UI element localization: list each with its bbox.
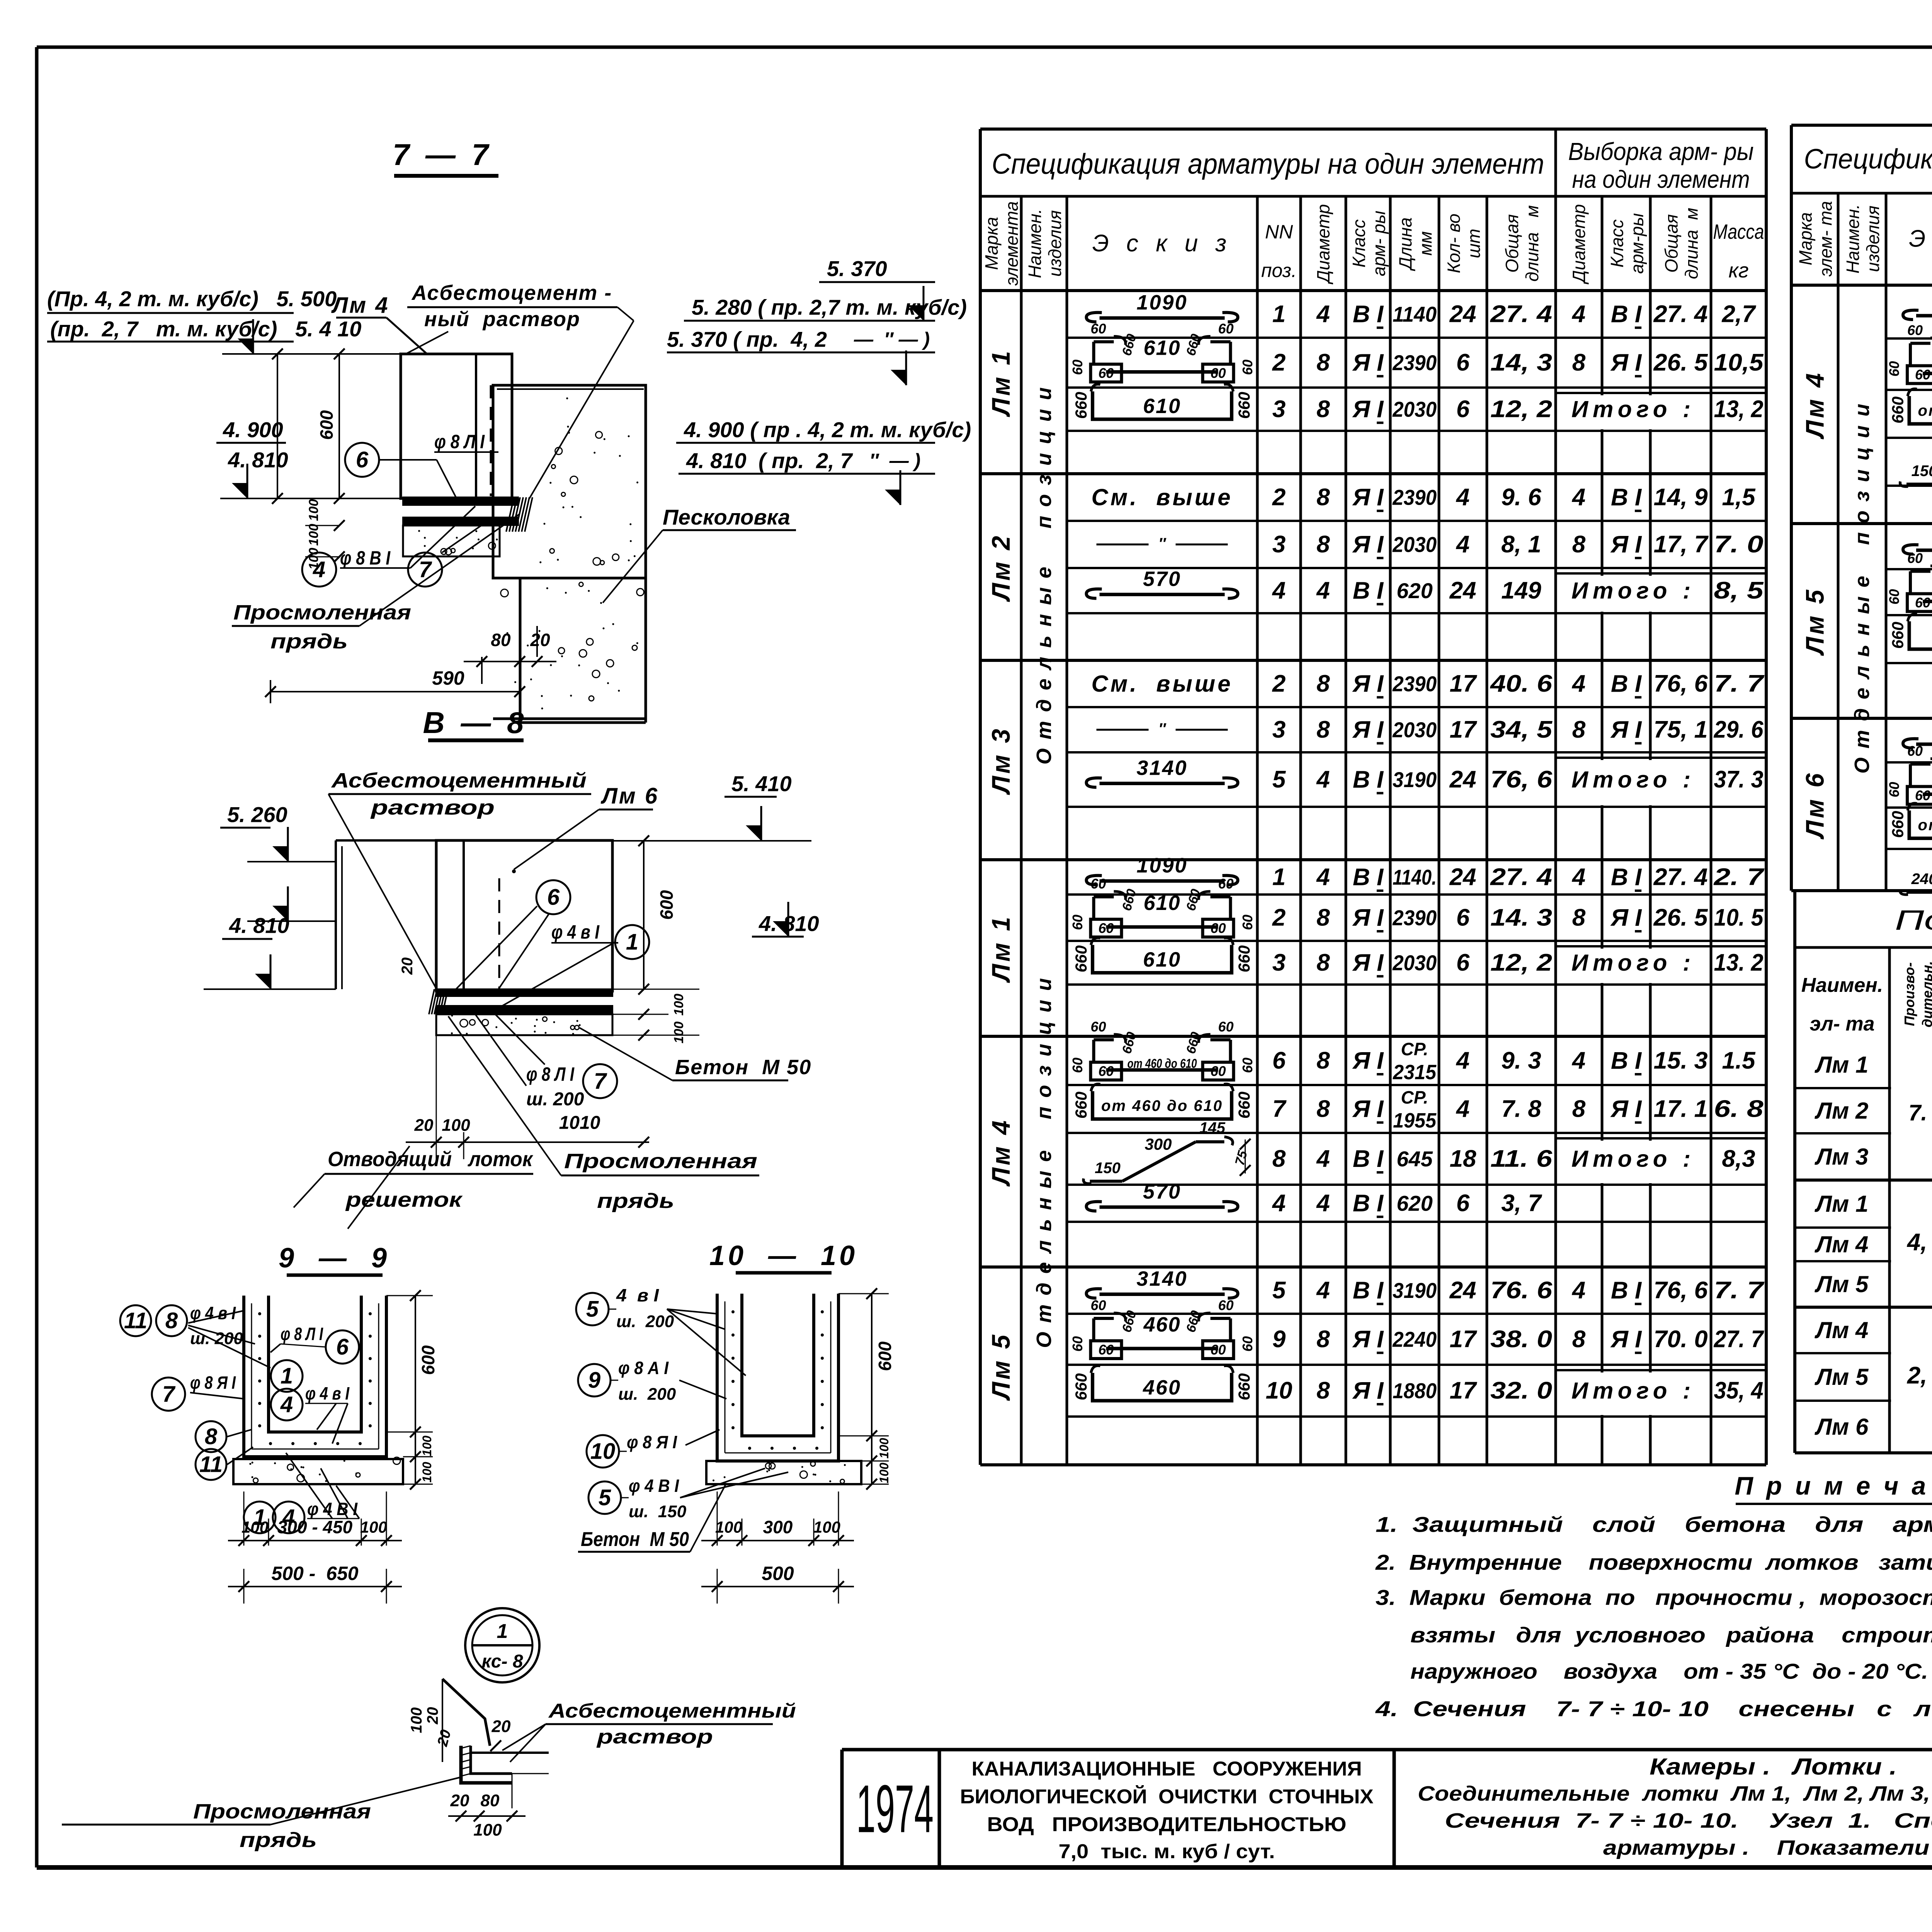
svg-text:2,7: 2,7 [1721, 301, 1756, 328]
svg-text:Э с к и з: Э с к и з [1092, 230, 1232, 257]
svg-text:1880: 1880 [1393, 1379, 1437, 1403]
svg-text:Итого :: Итого : [1571, 767, 1695, 793]
svg-text:8: 8 [1316, 670, 1330, 697]
svg-text:24: 24 [1449, 1277, 1476, 1304]
svg-text:5. 370: 5. 370 [827, 257, 887, 281]
svg-text:8: 8 [1316, 1378, 1330, 1404]
svg-text:1090: 1090 [1136, 854, 1187, 877]
svg-text:Произво-: Произво- [1901, 962, 1917, 1026]
svg-text:8: 8 [1572, 349, 1586, 376]
svg-text:12, 2: 12, 2 [1490, 949, 1552, 976]
svg-text:100: 100 [306, 524, 321, 546]
svg-text:3: 3 [1272, 716, 1286, 743]
svg-text:4: 4 [1272, 577, 1286, 604]
svg-text:6: 6 [336, 1335, 349, 1360]
svg-text:35, 4: 35, 4 [1714, 1378, 1764, 1404]
svg-text:60: 60 [1907, 322, 1923, 338]
svg-text:80: 80 [481, 1791, 500, 1810]
svg-text:В I: В I [1353, 766, 1384, 793]
svg-text:8: 8 [1272, 1146, 1286, 1172]
svg-text:арм-ры: арм-ры [1627, 213, 1647, 274]
svg-text:φ 8 В I: φ 8 В I [340, 547, 391, 569]
svg-text:Наимен.: Наимен. [1025, 209, 1045, 278]
svg-text:мм: мм [1415, 231, 1435, 255]
svg-text:Лм 3: Лм 3 [1815, 1144, 1869, 1170]
svg-text:1: 1 [497, 1620, 508, 1643]
svg-text:Я I: Я I [1352, 949, 1384, 976]
svg-text:8: 8 [1316, 1326, 1330, 1353]
svg-text:60: 60 [1098, 1063, 1114, 1079]
svg-text:610: 610 [1143, 337, 1180, 360]
svg-text:6: 6 [1456, 1190, 1470, 1217]
svg-text:Я I: Я I [1610, 531, 1642, 558]
svg-text:элемента: элемента [1002, 201, 1022, 286]
svg-text:150: 150 [1912, 463, 1932, 480]
svg-text:10: 10 [590, 1439, 616, 1464]
svg-text:2390: 2390 [1392, 485, 1437, 510]
svg-text:прядь: прядь [597, 1189, 674, 1213]
svg-text:Диаметр: Диаметр [1313, 204, 1333, 285]
svg-text:7: 7 [594, 1069, 607, 1094]
svg-text:2030: 2030 [1392, 951, 1437, 975]
svg-text:7,0 тыс. м. куб / сут.: 7,0 тыс. м. куб / сут. [1059, 1840, 1275, 1863]
svg-text:100: 100 [420, 1462, 434, 1483]
svg-text:4: 4 [1571, 301, 1585, 328]
svg-text:Песколовка: Песколовка [663, 505, 790, 529]
svg-text:6: 6 [547, 885, 560, 910]
svg-text:100: 100 [306, 499, 321, 521]
svg-text:В I: В I [1611, 1277, 1642, 1304]
svg-text:60: 60 [1218, 1298, 1233, 1313]
svg-text:Асбестоцемент -: Асбестоцемент - [411, 281, 612, 304]
svg-text:1.5: 1.5 [1722, 1048, 1756, 1074]
svg-text:100: 100 [442, 1116, 470, 1135]
svg-text:4: 4 [1571, 1048, 1585, 1074]
svg-text:1140.: 1140. [1393, 865, 1437, 889]
svg-text:4: 4 [1456, 531, 1469, 558]
svg-text:Масса: Масса [1713, 220, 1764, 243]
svg-text:В I: В I [1611, 484, 1642, 511]
svg-text:3: 3 [1272, 531, 1286, 558]
svg-text:Наимен.: Наимен. [1801, 974, 1883, 997]
svg-text:24: 24 [1449, 301, 1476, 328]
svg-text:от 460 до 610: от 460 до 610 [1101, 1097, 1223, 1114]
svg-text:2: 2 [1272, 484, 1286, 511]
svg-text:3140: 3140 [1136, 757, 1187, 780]
svg-text:620: 620 [1396, 578, 1432, 603]
svg-text:См. выше: См. выше [1092, 671, 1233, 697]
svg-text:Лм 6: Лм 6 [1815, 1414, 1869, 1440]
svg-text:наружного воздуха от - 3: наружного воздуха от - 35 °С до - 20 °С. [1410, 1659, 1928, 1684]
svg-text:3: 3 [1272, 396, 1286, 423]
svg-text:Я I: Я I [1352, 1048, 1384, 1074]
svg-text:Общая: Общая [1502, 214, 1522, 272]
svg-text:В I: В I [1353, 1146, 1384, 1172]
svg-text:Я I: Я I [1352, 349, 1384, 376]
svg-text:8: 8 [1572, 1326, 1586, 1353]
svg-text:60: 60 [1210, 920, 1226, 936]
svg-text:2, 7: 2, 7 [1907, 1362, 1932, 1389]
svg-text:80: 80 [491, 630, 511, 650]
svg-text:60: 60 [1240, 1336, 1255, 1352]
svg-text:Я I: Я I [1352, 905, 1384, 931]
svg-text:20: 20 [450, 1791, 469, 1810]
svg-text:8: 8 [1572, 716, 1586, 743]
svg-text:660: 660 [1235, 1373, 1253, 1400]
svg-text:4: 4 [313, 557, 325, 582]
svg-text:4. 810 ( пр. 2, 7: 4. 810 ( пр. 2, 7 [686, 449, 853, 473]
svg-text:1: 1 [253, 1505, 266, 1530]
svg-text:15. 3: 15. 3 [1654, 1048, 1708, 1074]
svg-text:24: 24 [1449, 766, 1476, 793]
svg-text:645: 645 [1396, 1147, 1433, 1171]
svg-text:Общая: Общая [1662, 214, 1682, 272]
svg-text:φ 8 А I: φ 8 А I [618, 1358, 669, 1378]
svg-text:В I: В I [1353, 864, 1384, 891]
svg-text:Лм 4: Лм 4 [1815, 1317, 1869, 1343]
svg-text:660: 660 [1072, 392, 1090, 419]
svg-text:500: 500 [762, 1563, 794, 1584]
svg-text:7 — 7: 7 — 7 [393, 138, 492, 172]
svg-text:29. 6: 29. 6 [1714, 716, 1764, 743]
svg-text:76. 6: 76. 6 [1490, 1277, 1553, 1304]
svg-text:460: 460 [1143, 1376, 1181, 1399]
svg-text:φ 8 Л I: φ 8 Л I [434, 431, 485, 452]
svg-text:17: 17 [1450, 1378, 1477, 1404]
svg-text:7: 7 [1272, 1096, 1287, 1122]
svg-text:2: 2 [1272, 670, 1286, 697]
svg-text:660: 660 [1184, 888, 1203, 913]
svg-text:См. выше: См. выше [1092, 485, 1233, 510]
svg-text:570: 570 [1143, 1180, 1181, 1203]
svg-text:60: 60 [1098, 365, 1114, 381]
svg-text:2030: 2030 [1392, 532, 1437, 557]
svg-text:34, 5: 34, 5 [1490, 716, 1553, 743]
svg-text:Лм 1: Лм 1 [986, 349, 1015, 417]
svg-text:кс- 8: кс- 8 [481, 1651, 523, 1672]
svg-text:60: 60 [1070, 359, 1085, 375]
svg-text:φ 8 Я I: φ 8 Я I [190, 1372, 236, 1393]
svg-text:Бетон М 50: Бетон М 50 [581, 1528, 689, 1551]
svg-text:14, 3: 14, 3 [1490, 349, 1552, 376]
svg-text:7. 7: 7. 7 [1714, 670, 1765, 697]
svg-text:6: 6 [1456, 905, 1470, 931]
svg-text:100: 100 [877, 1463, 891, 1483]
svg-text:кг: кг [1728, 259, 1748, 282]
svg-text:1955: 1955 [1393, 1109, 1437, 1132]
svg-text:Лм 1: Лм 1 [1815, 1052, 1869, 1078]
svg-text:8: 8 [1316, 349, 1330, 376]
svg-text:Бетон М 50: Бетон М 50 [675, 1056, 811, 1079]
svg-text:Марка: Марка [981, 217, 1002, 270]
svg-text:60: 60 [1090, 876, 1106, 892]
svg-text:150: 150 [1095, 1160, 1121, 1177]
svg-text:660: 660 [1119, 888, 1139, 913]
svg-text:9: 9 [1272, 1326, 1286, 1353]
svg-text:В I: В I [1353, 577, 1384, 604]
svg-text:2390: 2390 [1392, 350, 1437, 375]
svg-text:Просмоленная: Просмоленная [233, 601, 411, 624]
svg-text:60: 60 [1090, 1298, 1106, 1313]
svg-text:Асбестоцементный: Асбестоцементный [331, 769, 587, 792]
svg-text:17: 17 [1450, 670, 1477, 697]
svg-text:5: 5 [1272, 766, 1286, 793]
svg-text:φ 4 В I: φ 4 В I [629, 1476, 679, 1496]
svg-text:Лм 3: Лм 3 [986, 726, 1015, 795]
svg-text:раствор: раствор [596, 1726, 713, 1748]
svg-text:11: 11 [124, 1308, 147, 1333]
svg-text:75, 1: 75, 1 [1654, 716, 1708, 743]
svg-text:ВОД ПРОИЗВОДИТЕЛЬНОСТЬЮ: ВОД ПРОИЗВОДИТЕЛЬНОСТЬЮ [987, 1813, 1347, 1836]
svg-text:660: 660 [1889, 622, 1907, 649]
svg-text:5. 370 ( пр. 4, 2: 5. 370 ( пр. 4, 2 [667, 327, 827, 352]
svg-text:10. 5: 10. 5 [1714, 905, 1764, 931]
svg-text:В I: В I [1611, 301, 1642, 328]
svg-text:длина м: длина м [1682, 208, 1702, 279]
svg-text:″ — ): ″ — ) [869, 450, 920, 471]
svg-text:60: 60 [1915, 367, 1930, 383]
svg-text:60: 60 [1886, 782, 1902, 797]
svg-text:60: 60 [1070, 1058, 1085, 1073]
svg-text:500 - 650: 500 - 650 [271, 1563, 358, 1584]
svg-text:18: 18 [1450, 1146, 1476, 1172]
svg-text:7. 0: 7. 0 [1908, 1100, 1932, 1126]
svg-text:Лм 6: Лм 6 [1801, 771, 1829, 839]
svg-text:Я I: Я I [1352, 531, 1384, 558]
svg-text:2: 2 [1272, 905, 1286, 931]
svg-text:(Пр. 4, 2 т. м. куб/с) 5. 50: (Пр. 4, 2 т. м. куб/с) 5. 500 [47, 287, 337, 311]
svg-text:610: 610 [1143, 891, 1180, 915]
svg-text:7: 7 [162, 1382, 176, 1407]
svg-text:изделия: изделия [1045, 210, 1065, 277]
svg-text:Лм 1: Лм 1 [1815, 1191, 1869, 1217]
svg-text:14, 9: 14, 9 [1654, 484, 1708, 511]
svg-text:φ 4 в I: φ 4 в I [551, 921, 600, 943]
svg-text:60: 60 [1070, 915, 1085, 930]
svg-text:13, 2: 13, 2 [1714, 396, 1764, 423]
svg-text:2315: 2315 [1393, 1061, 1437, 1084]
svg-text:от 460 до 610: от 460 до 610 [1128, 1056, 1197, 1071]
svg-text:4: 4 [1316, 577, 1330, 604]
svg-text:9. 6: 9. 6 [1501, 484, 1541, 511]
svg-text:4. 900: 4. 900 [223, 418, 283, 442]
svg-text:4: 4 [1571, 864, 1585, 891]
svg-text:3, 7: 3, 7 [1501, 1190, 1542, 1217]
svg-text:20: 20 [492, 1717, 511, 1736]
svg-text:6: 6 [356, 447, 369, 473]
svg-text:20: 20 [530, 630, 550, 650]
svg-text:60: 60 [1218, 1019, 1233, 1035]
svg-text:NN: NN [1265, 221, 1293, 243]
svg-text:60: 60 [1907, 550, 1923, 566]
svg-text:Асбестоцементный: Асбестоцементный [548, 1700, 796, 1722]
svg-text:9: 9 [588, 1368, 600, 1393]
svg-text:Э с к и з: Э с к и з [1909, 226, 1932, 252]
svg-text:4: 4 [1316, 1146, 1330, 1172]
svg-text:13. 2: 13. 2 [1714, 949, 1764, 976]
svg-text:1. Защитный слой бетона: 1. Защитный слой бетона для арматуры - 2… [1376, 1512, 1932, 1537]
svg-text:6: 6 [1456, 349, 1470, 376]
svg-text:арматуры . Показатели .: арматуры . Показатели . [1603, 1836, 1932, 1859]
svg-text:ш. 200: ш. 200 [526, 1089, 584, 1110]
svg-text:76, 6: 76, 6 [1654, 670, 1708, 697]
svg-text:Итого :: Итого : [1571, 1146, 1695, 1172]
svg-text:Я I: Я I [1610, 716, 1642, 743]
svg-text:100: 100 [408, 1708, 425, 1733]
svg-text:660: 660 [1119, 1031, 1139, 1056]
svg-text:прядь: прядь [270, 630, 348, 653]
svg-text:Я I: Я I [1352, 716, 1384, 743]
svg-text:арм- ры: арм- ры [1369, 211, 1389, 276]
svg-text:4: 4 [1316, 864, 1330, 891]
svg-text:8: 8 [1572, 1096, 1586, 1122]
svg-text:Лм 4: Лм 4 [331, 293, 389, 318]
svg-text:П р и м е ч а н и я :: П р и м е ч а н и я : [1735, 1471, 1932, 1500]
svg-text:60: 60 [1210, 365, 1226, 381]
svg-text:2240: 2240 [1392, 1327, 1437, 1352]
svg-text:Спецификация арматуры на один: Спецификация арматуры на один элемент [1804, 144, 1932, 175]
svg-text:4. 900 ( пр . 4, 2 т. м. куб/с: 4. 900 ( пр . 4, 2 т. м. куб/с) [684, 418, 971, 442]
svg-text:Диаметр: Диаметр [1569, 204, 1589, 285]
svg-text:В I: В I [1611, 864, 1642, 891]
svg-text:300: 300 [763, 1517, 793, 1537]
svg-text:ш. 200: ш. 200 [618, 1385, 676, 1404]
svg-text:3140: 3140 [1136, 1267, 1187, 1291]
svg-text:60: 60 [1915, 787, 1930, 803]
svg-text:СР.: СР. [1401, 1087, 1429, 1107]
svg-text:24: 24 [1449, 864, 1476, 891]
svg-text:φ 4 В I: φ 4 В I [307, 1499, 358, 1519]
svg-text:″: ″ [1158, 535, 1167, 552]
svg-text:О т д е л ь н ы е п о з и ц: О т д е л ь н ы е п о з и ц и и [1850, 402, 1874, 774]
svg-text:Лм 1: Лм 1 [986, 915, 1015, 983]
svg-text:20: 20 [414, 1116, 434, 1135]
svg-text:27. 4: 27. 4 [1490, 301, 1552, 328]
svg-text:6. 8: 6. 8 [1714, 1096, 1764, 1122]
svg-text:600: 600 [316, 410, 337, 440]
svg-text:Просмоленная: Просмоленная [193, 1800, 371, 1823]
svg-text:О т д е л ь н ы е п о з и ц: О т д е л ь н ы е п о з и ц и и [1032, 976, 1056, 1348]
svg-text:600: 600 [418, 1345, 438, 1375]
svg-text:100: 100 [672, 994, 686, 1016]
svg-text:11. 6: 11. 6 [1490, 1146, 1553, 1172]
svg-text:4. 810: 4. 810 [228, 448, 288, 472]
svg-text:17, 7: 17, 7 [1654, 531, 1709, 558]
svg-text:610: 610 [1143, 948, 1181, 971]
svg-text:— ″ — ): — ″ — ) [854, 328, 930, 350]
svg-text:1: 1 [1272, 301, 1286, 328]
svg-text:660: 660 [1889, 811, 1907, 838]
svg-text:Класс: Класс [1349, 219, 1369, 268]
svg-text:2030: 2030 [1392, 718, 1437, 742]
svg-text:620: 620 [1396, 1191, 1432, 1216]
svg-text:570: 570 [1143, 568, 1181, 591]
svg-text:600: 600 [875, 1341, 895, 1371]
svg-text:Я I: Я I [1610, 905, 1642, 931]
svg-text:Сечения 7- 7 ÷ 10- 10. Узе: Сечения 7- 7 ÷ 10- 10. Узел 1. Специфика… [1445, 1809, 1932, 1832]
svg-text:8: 8 [1572, 905, 1586, 931]
svg-text:7. 8: 7. 8 [1501, 1096, 1541, 1122]
svg-text:4: 4 [1456, 1096, 1469, 1122]
svg-text:2. Внутренние поверхности: 2. Внутренние поверхности лотков затираю… [1375, 1550, 1932, 1575]
svg-text:100: 100 [813, 1518, 840, 1536]
svg-text:Итого :: Итого : [1571, 950, 1695, 976]
svg-text:60: 60 [1240, 359, 1255, 375]
svg-text:4: 4 [1571, 1277, 1585, 1304]
svg-text:8: 8 [1316, 716, 1330, 743]
svg-text:″: ″ [1158, 721, 1167, 738]
svg-text:Лм 5: Лм 5 [986, 1332, 1015, 1401]
svg-text:4: 4 [1316, 1277, 1330, 1304]
svg-text:В I: В I [1611, 670, 1642, 697]
svg-text:шт: шт [1464, 229, 1484, 259]
svg-text:1: 1 [626, 930, 638, 955]
svg-text:взяты для условного район: взяты для условного района строительства… [1410, 1623, 1932, 1647]
svg-text:1: 1 [281, 1364, 293, 1389]
svg-text:9 — 9: 9 — 9 [279, 1243, 390, 1274]
svg-text:Я I: Я I [1352, 484, 1384, 511]
svg-text:Итого :: Итого : [1571, 578, 1695, 604]
svg-text:от 460 до 610: от 460 до 610 [1918, 402, 1932, 419]
svg-text:Лм 5: Лм 5 [1801, 587, 1829, 656]
svg-text:элем- та: элем- та [1816, 201, 1836, 277]
svg-text:1: 1 [1272, 864, 1286, 891]
svg-text:1140: 1140 [1393, 302, 1437, 327]
svg-text:100: 100 [715, 1518, 742, 1536]
svg-text:6: 6 [1272, 1048, 1286, 1074]
svg-text:φ 4 в I: φ 4 в I [305, 1383, 350, 1403]
svg-text:φ 8 Я I: φ 8 Я I [627, 1432, 677, 1452]
svg-text:Показатели на один элемент: Показатели на один элемент [1895, 905, 1932, 936]
svg-text:149: 149 [1501, 577, 1541, 604]
svg-text:дительн.: дительн. [1919, 961, 1932, 1027]
svg-text:8: 8 [1316, 905, 1330, 931]
svg-text:Кол- во: Кол- во [1444, 214, 1464, 273]
svg-text:300: 300 [1145, 1135, 1172, 1153]
svg-text:27. 4: 27. 4 [1653, 301, 1708, 328]
svg-text:8: 8 [205, 1424, 218, 1449]
svg-text:27. 7: 27. 7 [1714, 1326, 1764, 1353]
svg-text:2390: 2390 [1392, 672, 1437, 696]
svg-text:60: 60 [1240, 915, 1255, 930]
svg-text:660: 660 [1184, 332, 1203, 357]
svg-text:660: 660 [1072, 945, 1090, 972]
svg-text:660: 660 [1235, 1092, 1253, 1119]
svg-text:60: 60 [1915, 595, 1930, 611]
svg-text:(пр. 2, 7 т. м. куб/с) 5.: (пр. 2, 7 т. м. куб/с) 5. 4 10 [50, 317, 361, 341]
svg-text:5: 5 [586, 1297, 599, 1322]
svg-text:5. 280 ( пр. 2,7 т. м. куб/с): 5. 280 ( пр. 2,7 т. м. куб/с) [692, 295, 967, 320]
svg-text:поз.: поз. [1261, 260, 1297, 281]
svg-text:60: 60 [1090, 1019, 1106, 1035]
svg-text:8: 8 [1316, 1096, 1330, 1122]
svg-text:660: 660 [1889, 396, 1907, 423]
svg-text:1090: 1090 [1136, 291, 1187, 314]
svg-text:Лм 4: Лм 4 [986, 1118, 1015, 1187]
svg-text:27. 4: 27. 4 [1490, 864, 1552, 891]
svg-text:Лм 2: Лм 2 [1815, 1098, 1869, 1124]
svg-text:Я I: Я I [1352, 670, 1384, 697]
svg-text:60: 60 [1907, 743, 1923, 759]
svg-text:раствор: раствор [370, 796, 495, 819]
svg-text:8: 8 [1316, 396, 1330, 423]
svg-text:1010: 1010 [559, 1113, 600, 1133]
svg-text:Марка: Марка [1796, 212, 1816, 265]
svg-text:Я I: Я I [1352, 1096, 1384, 1122]
svg-text:76, 6: 76, 6 [1490, 766, 1553, 793]
svg-text:17: 17 [1450, 716, 1477, 743]
svg-text:26. 5: 26. 5 [1653, 905, 1708, 931]
